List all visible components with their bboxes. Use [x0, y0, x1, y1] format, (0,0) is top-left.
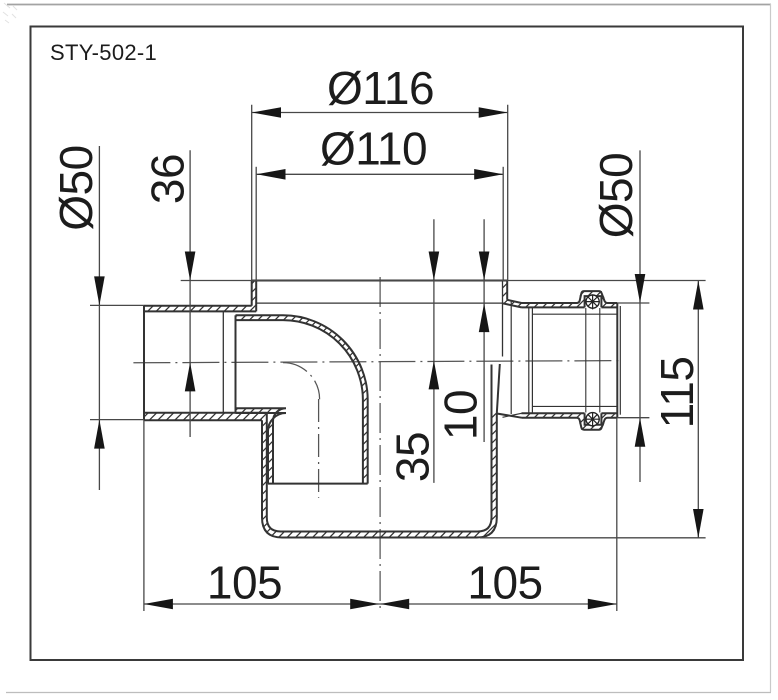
bowl right outer upper slant — [497, 364, 500, 414]
o-ring top — [585, 294, 599, 309]
dim Ø110 line — [257, 173, 504, 175]
dim Ø50 left line — [98, 146, 100, 490]
dim 10 line — [483, 219, 485, 442]
svg-text:STY-502-1: STY-502-1 — [50, 40, 157, 65]
bowl inner wall — [267, 365, 492, 532]
elbow bend centerline arc — [283, 363, 320, 400]
right socket bottom inner — [522, 412, 618, 414]
svg-text:Ø116: Ø116 — [327, 62, 434, 114]
Ø50 right arrows — [635, 274, 646, 303]
long extension line at rim top — [181, 280, 706, 282]
36 arrows — [185, 252, 196, 281]
rim top edge — [251, 280, 508, 282]
o-ring groove back walls — [585, 308, 587, 413]
rim right wall + top cone hatch — [503, 281, 522, 308]
right socket mouth chamfer — [619, 306, 621, 415]
right socket top outer with o-ring bump — [522, 291, 618, 303]
35 arrows — [429, 252, 440, 281]
right socket bottom wall hatch — [522, 413, 618, 429]
right socket chamfer top line — [532, 313, 617, 315]
rim left wall inner — [255, 281, 257, 312]
right socket shoulder lines — [528, 307, 530, 413]
left socket shoulder — [222, 311, 224, 412]
o-ring bottom — [585, 412, 599, 427]
horizontal pipe centerline — [133, 361, 621, 363]
svg-text:35: 35 — [387, 432, 439, 482]
dim 115 line — [697, 281, 699, 539]
svg-text:10: 10 — [435, 390, 487, 440]
vertical main centerline — [379, 277, 381, 613]
rim left wall outer — [251, 281, 253, 306]
right top cone outer — [507, 300, 521, 303]
socket bore back wall — [510, 301, 512, 414]
faint corner artifacts — [3, 3, 17, 23]
Ø50 left arrows — [94, 276, 105, 305]
rim right wall outer — [506, 281, 508, 300]
dim Ø116 extension lines — [251, 105, 253, 281]
right socket chamfer bottom line — [532, 405, 617, 407]
elbow top inner — [236, 320, 363, 484]
dim Ø110 extension lines — [255, 167, 257, 281]
svg-text:Ø50: Ø50 — [590, 153, 642, 238]
elbow top outer — [236, 315, 368, 483]
left socket bottom inner — [144, 412, 267, 414]
dim 36 line — [189, 150, 191, 437]
right bottom cone outer — [497, 414, 522, 418]
svg-text:36: 36 — [142, 154, 194, 204]
page faint border right — [770, 4, 772, 692]
svg-text:105: 105 — [467, 557, 542, 609]
right socket top inner — [522, 306, 618, 308]
elbow bottom inner — [236, 408, 287, 483]
elbow bottom outer — [236, 413, 287, 484]
svg-text:115: 115 — [651, 357, 703, 429]
115 arrows — [693, 281, 704, 310]
10 arrows — [479, 252, 490, 281]
right socket bottom groove inner — [585, 413, 602, 424]
right socket bottom outer with o-ring bump — [522, 418, 618, 430]
right socket top groove inner — [585, 296, 602, 307]
rim right wall inner — [502, 281, 504, 357]
right socket mouth — [616, 303, 618, 418]
page faint border bottom — [6, 692, 771, 694]
Ø116 arrows — [252, 107, 281, 118]
left socket top inner — [144, 310, 256, 312]
dim Ø116 line — [252, 112, 508, 114]
svg-text:Ø50: Ø50 — [50, 145, 102, 230]
bowl outer wall — [262, 414, 497, 538]
left socket top outer — [144, 305, 252, 307]
elbow hatch — [236, 315, 368, 483]
left socket top wall + rim left wall hatch — [144, 281, 256, 312]
dim 105 line — [144, 603, 617, 605]
ext line right mouth down — [616, 418, 618, 611]
elbow mouth — [235, 315, 237, 413]
left socket bottom wall hatch — [144, 413, 267, 421]
left socket mouth — [143, 306, 145, 421]
svg-text:Ø110: Ø110 — [320, 123, 427, 175]
svg-text:105: 105 — [207, 557, 282, 609]
dim Ø50 right ticks — [617, 302, 649, 304]
elbow outlet mouth edge — [268, 483, 368, 485]
dim 35 line — [433, 219, 435, 483]
ext line left mouth down — [143, 420, 145, 611]
dim Ø50 left ticks — [90, 304, 144, 306]
elbow outlet centerline — [318, 399, 320, 498]
right bottom cone inner — [503, 413, 522, 417]
right top cone inner — [503, 303, 522, 307]
rim deck line — [256, 302, 502, 304]
Ø110 arrows — [257, 169, 286, 180]
left socket bottom outer — [144, 419, 262, 421]
bowl U-shaped wall hatch — [262, 413, 497, 538]
right socket top wall hatch — [522, 291, 618, 307]
105 arrows — [144, 599, 173, 610]
dim Ø50 right line — [639, 150, 641, 482]
extension line at bowl bottom — [480, 537, 706, 539]
page faint border top — [7, 4, 771, 6]
